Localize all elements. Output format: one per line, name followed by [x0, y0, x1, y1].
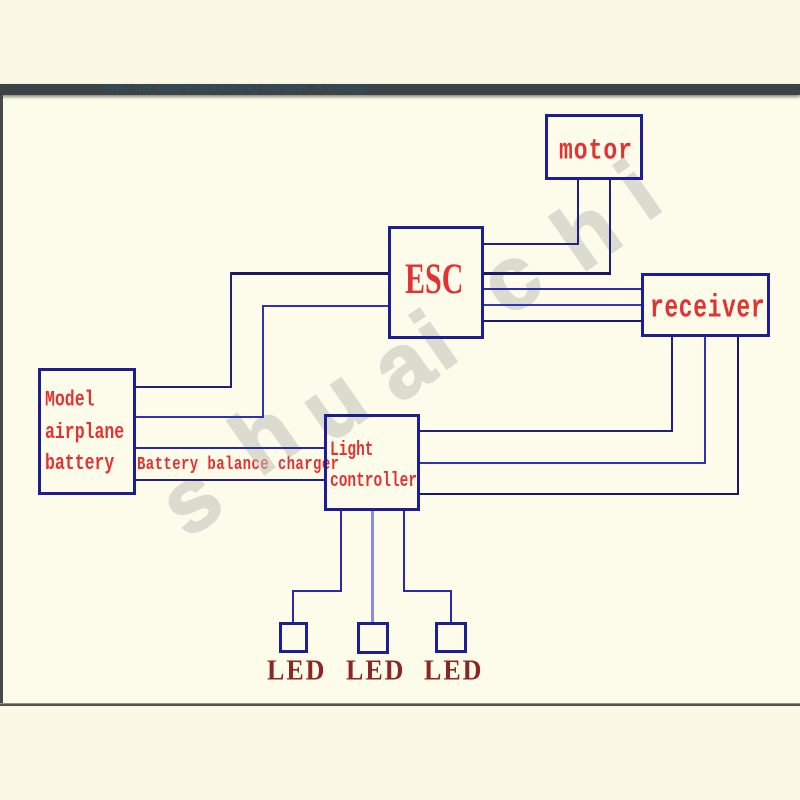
top bar — [0, 84, 800, 95]
wire: light controller to LED1 vertical upper — [340, 511, 342, 592]
wire: receiver lead 3 horizontal to light controller — [420, 493, 739, 495]
wire: battery wire A horizontal from battery — [136, 386, 232, 388]
inner panel — [3, 95, 800, 703]
box: Model airplane battery — [38, 368, 136, 495]
left strip — [0, 95, 3, 703]
wire: ESC to receiver line 1 — [484, 288, 641, 290]
wire: battery wire B horizontal from battery — [136, 416, 264, 418]
wire: light controller to LED1 vertical lower — [292, 590, 294, 622]
wire: light controller to LED3 horizontal — [403, 590, 452, 592]
wire: receiver lead 3 vertical — [737, 337, 739, 495]
wire: receiver lead 1 vertical — [671, 337, 673, 432]
wire: receiver lead 1 horizontal to light controller — [420, 430, 673, 432]
wire: light controller to LED3 vertical lower — [450, 590, 452, 622]
wire: light controller to LED1 horizontal — [292, 590, 342, 592]
label: Light controller — [330, 437, 417, 497]
wire: ESC to receiver line 3 — [484, 320, 641, 322]
label: motor — [559, 134, 633, 168]
wire: motor right lead vertical — [609, 180, 611, 274]
bottom line — [0, 703, 800, 706]
label: ESC — [405, 255, 463, 305]
label: Model airplane battery — [45, 384, 124, 479]
label: receiver — [650, 290, 765, 326]
wire: motor left lead vertical — [577, 180, 579, 245]
wire: battery wire A horizontal to ESC left — [230, 272, 388, 275]
label: LED1 — [267, 654, 326, 687]
box: motor — [545, 114, 643, 180]
wire: receiver lead 2 horizontal to light controller — [420, 462, 706, 464]
box: LED2 — [357, 622, 389, 654]
watermark: shuaichi — [0, 0, 1, 1]
wire: battery to light controller lower — [136, 479, 324, 481]
wire: battery wire B vertical — [262, 305, 264, 418]
box: receiver — [641, 273, 770, 337]
box: ESC — [388, 226, 484, 339]
wire: motor left lead horizontal to ESC right — [484, 243, 579, 245]
wire: receiver lead 2 vertical — [704, 337, 706, 464]
wire: battery wire A vertical — [230, 272, 232, 388]
wire: battery to light controller upper — [136, 447, 324, 449]
label: LED3 — [424, 654, 483, 687]
label: Battery balance charger — [137, 454, 339, 476]
label: LED2 — [346, 654, 405, 687]
wire: battery wire B horizontal to ESC left — [262, 305, 388, 307]
box: Light controller — [324, 414, 420, 511]
wire: ESC to receiver line 2 — [484, 304, 641, 306]
wire: light controller to LED2 vertical — [371, 511, 374, 622]
wire: motor right lead horizontal to ESC right — [484, 272, 611, 275]
box: LED1 — [279, 622, 308, 653]
box: LED3 — [435, 622, 467, 653]
wire: light controller to LED3 vertical upper — [403, 511, 405, 592]
